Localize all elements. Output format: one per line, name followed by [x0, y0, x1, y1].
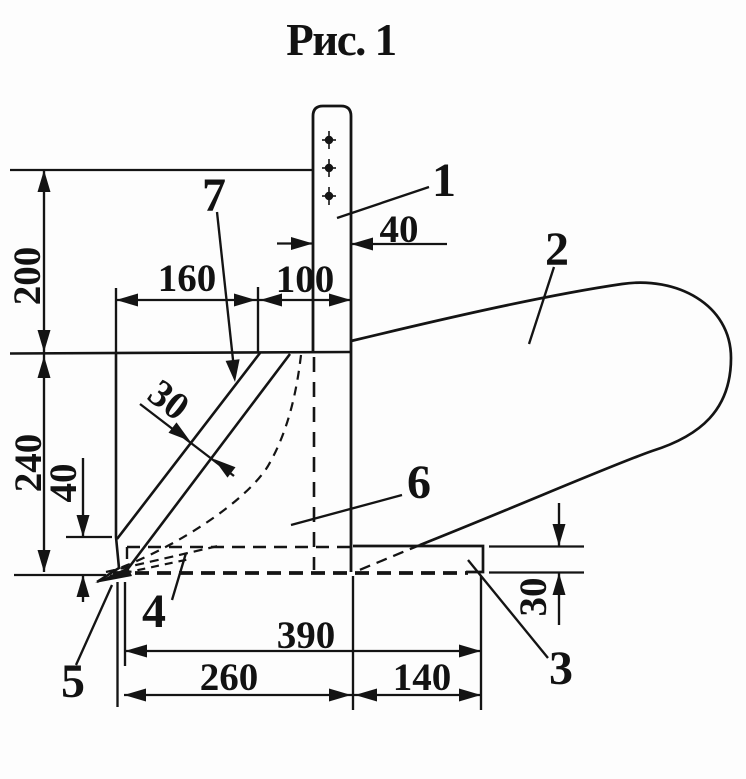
svg-text:30: 30: [512, 578, 555, 617]
svg-text:260: 260: [200, 656, 259, 699]
arrow 40 top pointing left: [351, 238, 373, 251]
arrow 200 top: [38, 170, 51, 192]
left edge of stand: [97, 353, 119, 582]
arrow 40 left up: [77, 575, 90, 597]
svg-text:390: 390: [277, 614, 336, 657]
svg-text:3: 3: [549, 642, 573, 695]
leader line 2: [529, 267, 554, 344]
share item 4 dashed line a: [106, 546, 218, 572]
arrow 240 bottom: [38, 550, 51, 572]
dimension 40 left vertical lines: [82, 458, 84, 537]
dimension 40 top left segment: [277, 242, 313, 244]
arrow 40 left down: [77, 515, 90, 537]
arrow 260 right: [329, 689, 351, 702]
arrow 160 right: [234, 294, 256, 307]
ground reference line: [14, 574, 106, 576]
svg-text:5: 5: [61, 655, 85, 708]
arrow 30 right down: [553, 524, 566, 546]
dimension 200/240 vertical line: [43, 170, 45, 572]
arrow 240 top: [38, 356, 51, 378]
svg-text:160: 160: [158, 257, 217, 300]
svg-text:40: 40: [380, 208, 419, 251]
arrow 200 bottom: [38, 330, 51, 352]
bolt hole cross 1: [322, 131, 336, 205]
svg-text:40: 40: [42, 464, 85, 503]
dimension 260/140 line: [124, 694, 481, 696]
arrow 100 left: [260, 294, 282, 307]
dimension 30 right vertical lines: [558, 503, 560, 546]
arrow 40 top pointing right: [291, 237, 313, 250]
leader line 7: [217, 212, 234, 369]
leader line 6: [291, 495, 402, 525]
arrow 390 right: [459, 645, 481, 658]
extension line x=481 bottom: [480, 576, 482, 710]
curved surface item 6 dashed curve: [112, 355, 301, 571]
dimension 40 top right segment: [351, 243, 447, 245]
arrow 30 right up: [553, 573, 566, 595]
base plate hidden top edge dashed: [127, 546, 352, 548]
arrow 160 left: [116, 294, 138, 307]
extension line x=117 bottom short: [124, 582, 126, 666]
leader line 4: [172, 553, 186, 600]
extension tick at y=537: [66, 536, 112, 538]
svg-text:7: 7: [202, 169, 226, 222]
extension line x=353 bottom: [352, 576, 354, 710]
base plate hidden left edge dashed: [126, 547, 128, 572]
extension line x=123 bottom: [116, 582, 118, 707]
extension stub above left edge: [115, 288, 117, 353]
post U-shaped stanchion item 1: [313, 106, 351, 572]
share item 4 dashed line b: [110, 559, 190, 576]
tip wedge item 5: [95, 567, 132, 583]
dimension 160/100 line: [116, 299, 351, 301]
bolt hole cross 3: [326, 193, 333, 200]
arrow 30 strut upper: [169, 422, 191, 441]
svg-text:6: 6: [407, 456, 431, 509]
arrow 260 left: [124, 689, 146, 702]
svg-text:1: 1: [432, 154, 456, 207]
svg-text:4: 4: [142, 585, 166, 638]
svg-text:140: 140: [393, 656, 452, 699]
dimension 30 strut dim line: [140, 404, 234, 476]
bolt hole cross 2: [326, 165, 333, 172]
arrow 140 left: [355, 689, 377, 702]
svg-text:2: 2: [545, 223, 569, 276]
dimension 30 right extension lines: [489, 545, 584, 547]
leader line 5: [76, 585, 112, 665]
moldboard item 2 outline: [351, 283, 731, 545]
base plate item 3 solid outline: [353, 546, 483, 572]
dimension 390 line: [125, 650, 481, 652]
base plate bottom heavy dashed line: [113, 571, 468, 575]
svg-text:200: 200: [6, 247, 49, 306]
arrow 390 left: [125, 645, 147, 658]
svg-text:100: 100: [276, 258, 335, 301]
leader line 3: [468, 560, 548, 658]
top reference line y=170: [10, 169, 313, 171]
extension line x=258: [257, 287, 259, 353]
svg-text:Рис. 1: Рис. 1: [286, 15, 395, 65]
arrow 100 right: [329, 294, 351, 307]
frame line y=353: [10, 352, 351, 354]
moldboard hidden edge dashed: [357, 545, 420, 571]
arrow leader 7: [226, 359, 240, 382]
arrow 140 right: [459, 689, 481, 702]
hidden post left edge dashed: [313, 357, 316, 570]
leader line 1: [337, 187, 429, 218]
arrow 30 strut lower: [214, 459, 236, 478]
strut item 7 lower line: [127, 354, 290, 570]
strut item 7 upper line: [117, 353, 260, 539]
